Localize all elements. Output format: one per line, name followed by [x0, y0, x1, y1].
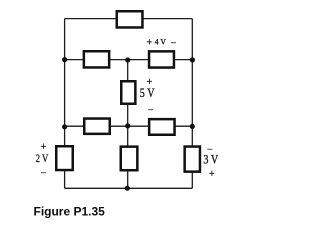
svg-text:4 V: 4 V — [155, 37, 167, 47]
node junction right row3 — [190, 124, 195, 129]
label 3 V minus sign — [207, 145, 213, 156]
node junction center bottom — [125, 186, 130, 191]
wire right rail — [191, 19, 193, 189]
svg-text:3 V: 3 V — [203, 153, 218, 167]
label 3 V plus sign — [209, 169, 215, 180]
box element row3 left — [84, 119, 110, 134]
box element row3 right — [149, 119, 174, 135]
svg-text:5 V: 5 V — [140, 86, 155, 100]
label 2 V value — [36, 152, 49, 165]
label 4 V value — [155, 37, 167, 47]
svg-text:Figure P1.35: Figure P1.35 — [34, 205, 106, 219]
voltage source 2 V box — [56, 146, 73, 170]
svg-text:−: − — [171, 38, 177, 49]
voltage source 5 V box — [121, 81, 135, 104]
box element row2 left — [84, 51, 109, 67]
box element top — [117, 11, 143, 27]
wire top row — [65, 18, 193, 20]
node junction center row2 — [125, 57, 130, 62]
node junction right row2 — [190, 57, 195, 62]
svg-text:−: − — [148, 105, 154, 116]
voltage source 4 V box — [149, 51, 174, 67]
label 5 V value — [140, 86, 155, 100]
wire left rail — [64, 19, 66, 189]
svg-text:+: + — [146, 38, 152, 49]
svg-text:2 V: 2 V — [36, 152, 49, 165]
label 3 V value — [203, 153, 218, 167]
svg-text:+: + — [209, 169, 215, 180]
box element bottom middle — [121, 147, 138, 171]
label 5 V plus sign — [147, 77, 153, 88]
wire center column — [127, 60, 129, 189]
node junction center row3 — [125, 123, 130, 128]
caption Figure P1.35 — [34, 205, 106, 219]
label 5 V minus sign — [148, 105, 154, 116]
label 2 V minus sign — [41, 168, 47, 179]
node junction left row2 — [62, 57, 67, 62]
label 4 V minus sign — [171, 38, 177, 49]
wire bottom row — [65, 187, 193, 189]
label 4 V plus sign — [146, 38, 152, 49]
wire third row — [65, 125, 193, 127]
voltage source 3 V box — [185, 147, 200, 172]
label 2 V plus sign — [41, 142, 47, 153]
wire second row — [65, 59, 193, 61]
svg-text:−: − — [41, 168, 47, 179]
node junction left row3 — [62, 124, 67, 129]
